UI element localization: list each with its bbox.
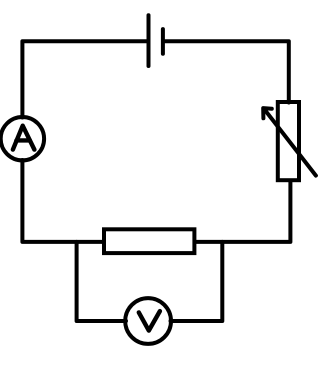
ammeter A1: circle body [1, 117, 44, 160]
wire: resistor right lead to bottom-right corner, up to rheostat bottom [195, 182, 290, 242]
voltmeter V1: letter V [139, 311, 160, 331]
wire: top-right from battery negative plate to top-right corner, down to rheostat top [164, 41, 289, 102]
wire: voltmeter branch right side up to node below resistor right [171, 242, 223, 321]
resistor R1: rectangle body [104, 229, 194, 253]
rheostat RV1: arrowhead [263, 108, 272, 118]
voltmeter V1: circle body [125, 298, 171, 344]
rheostat RV1: diagonal arrow shaft [265, 110, 316, 176]
battery cell B1: short plate (negative) [161, 29, 165, 54]
wire: top-left from battery positive plate to top-left corner, down to ammeter [22, 41, 147, 117]
wire: left vertical below ammeter to bottom-left corner and to resistor left lead [22, 160, 103, 242]
wire: voltmeter branch left drop from node below resistor left [77, 242, 126, 321]
ammeter A1: letter A [13, 126, 35, 150]
battery cell B1: long plate (positive) [147, 15, 151, 66]
rheostat RV1: rectangle body [278, 102, 299, 180]
